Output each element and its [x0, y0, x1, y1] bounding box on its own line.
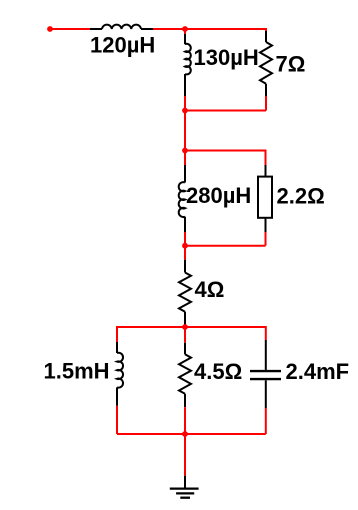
wire N1 down: [184, 29, 186, 34]
inductor L1 120uH: [90, 25, 153, 29]
wire C1 to bottom rail: [265, 408, 267, 434]
wire bottom rail section 2: [185, 245, 266, 247]
wire bottom rail section 1: [185, 110, 266, 112]
wire corner down to R2: [265, 150, 267, 166]
resistor R4 4.5ohm: [179, 343, 191, 407]
resistor R3 4ohm: [179, 260, 191, 325]
inductor L4 1.5mH: [117, 342, 123, 406]
node N5: [182, 324, 188, 330]
wire bottom rail section 3: [117, 433, 266, 435]
node N1: [182, 26, 188, 32]
resistor R2 2.2ohm box: [258, 165, 272, 232]
wire N2 to N3: [184, 111, 186, 151]
wire N5 down to R4: [184, 327, 186, 343]
wire N4 down to R3: [184, 246, 186, 260]
wire L4 to bottom rail: [116, 406, 118, 434]
ground: [170, 476, 199, 498]
wire input to L1: [50, 28, 90, 30]
wire right corner down to C1: [265, 326, 267, 340]
svg-text:2.2Ω: 2.2Ω: [277, 184, 325, 209]
wire top rail section 3: [117, 326, 266, 328]
wire L1 to corner above R1: [153, 28, 266, 30]
svg-text:2.4mF: 2.4mF: [286, 359, 350, 384]
capacitor C1 2.4mF: [250, 340, 281, 408]
node N4: [182, 243, 188, 249]
inductor L3 280uH: [179, 165, 185, 232]
svg-text:120µH: 120µH: [90, 33, 155, 58]
svg-text:130µH: 130µH: [194, 45, 259, 70]
node input terminal: [47, 26, 53, 32]
node N6: [182, 431, 188, 437]
inductor L2 130uH: [185, 34, 191, 96]
wire R4 to bottom rail: [184, 407, 186, 434]
svg-text:4.5Ω: 4.5Ω: [194, 359, 242, 384]
wire R3 to N5: [184, 325, 186, 328]
svg-text:7Ω: 7Ω: [276, 52, 306, 77]
wire top rail section 2: [185, 150, 266, 152]
svg-text:1.5mH: 1.5mH: [44, 359, 110, 384]
svg-text:4Ω: 4Ω: [195, 277, 225, 302]
wire R2 to rail: [265, 232, 267, 246]
wire N6 down to ground: [184, 434, 186, 476]
wire R1 to rail: [265, 96, 267, 111]
wire N3 down to L3: [184, 151, 186, 166]
wire L3 to N4: [184, 232, 186, 246]
wire corner down to R1: [265, 28, 267, 31]
wire L2 to N2: [184, 96, 186, 111]
node N3: [182, 148, 188, 154]
node N2: [182, 108, 188, 114]
resistor R1 7ohm: [260, 31, 272, 96]
svg-text:280µH: 280µH: [186, 183, 251, 208]
wire left corner down to L4: [116, 326, 118, 342]
